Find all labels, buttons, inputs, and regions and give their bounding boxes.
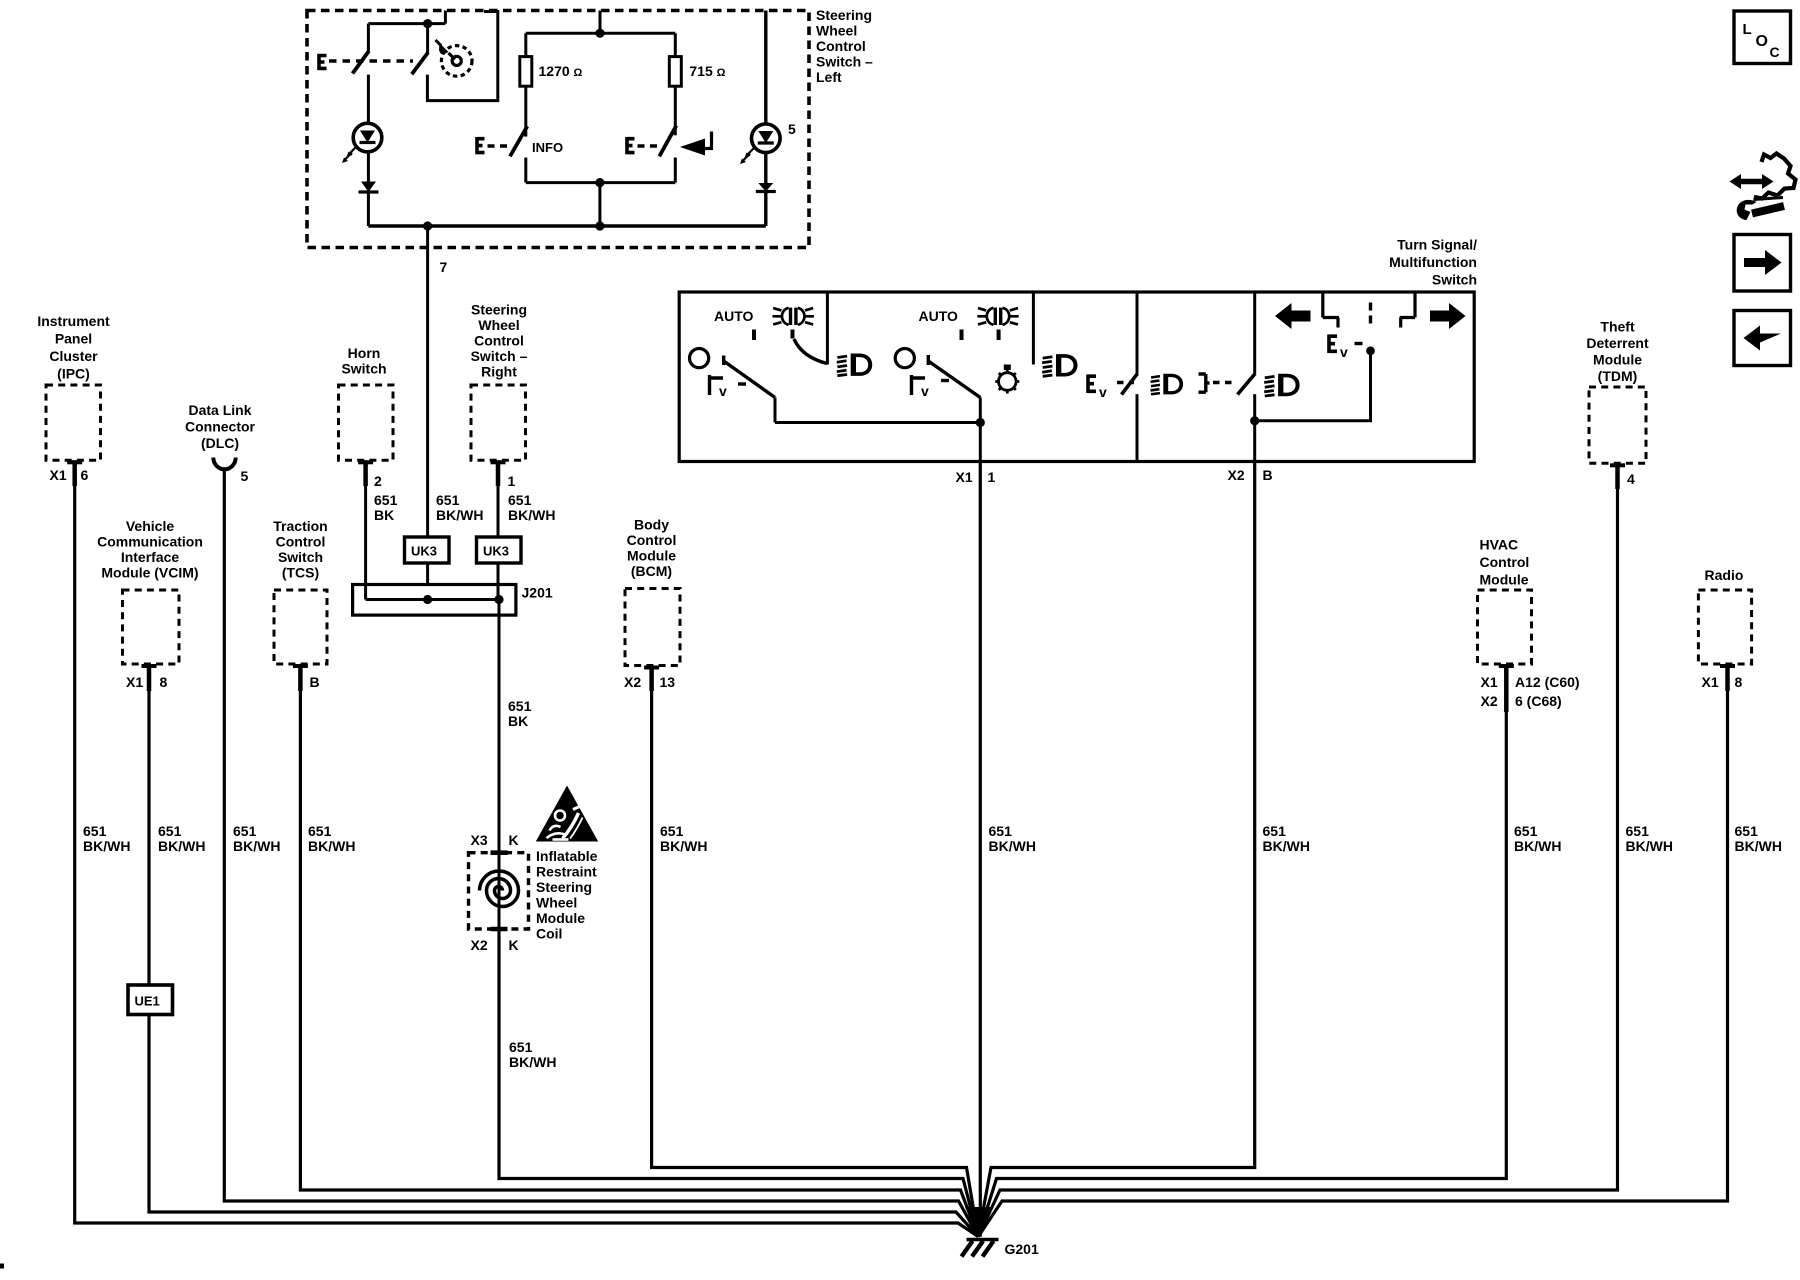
svg-text:Switch –: Switch – [471,348,528,364]
relay box UE1 [128,985,173,1015]
module BCM label [627,517,677,580]
wire: Radio to ground bus [978,689,1727,1237]
svg-text:Radio: Radio [1705,567,1744,583]
wire: BCM to ground bus [652,689,979,1237]
svg-text:651: 651 [1514,823,1538,839]
wire: HVAC to ground bus [978,712,1506,1237]
svg-text:6: 6 [81,467,89,483]
headlamps icon 1 [773,308,814,325]
link dashes section 3a [1117,381,1134,384]
switch S3 lower terminal [674,158,677,183]
pin stub SWCS-R [491,460,506,464]
svg-text:5: 5 [788,121,796,137]
wire: pin 7 drop below module [426,226,429,585]
svg-text:X2: X2 [1481,693,1498,709]
label: Inflatable Restraint Steering Wheel Module Coil [536,848,598,942]
svg-text:8: 8 [1735,674,1743,690]
pin label X1 X2 | A12 (C60) 6 (C68) [1481,674,1580,709]
low beam lamp icon 2 [1042,354,1077,376]
gauge G1 dashed dial [441,46,472,77]
gauge G1 hub [452,56,461,65]
svg-text:X2: X2 [471,937,488,953]
svg-text:Body: Body [634,517,669,533]
switch S7 upper contact [1253,292,1256,374]
svg-text:BK/WH: BK/WH [1735,838,1782,854]
label: Turn Signal / Multifunction Switch [1389,237,1477,288]
svg-text:(IPC): (IPC) [57,366,90,382]
turn signal right arrow [1430,303,1466,329]
switch S2 INFO blade [510,126,527,156]
svg-text:X2: X2 [624,674,641,690]
svg-text:Module: Module [627,548,676,564]
coil connector tick bottom [491,927,508,932]
svg-text:Coil: Coil [536,926,562,942]
svg-text:6 (C68): 6 (C68) [1515,693,1562,709]
junction J201 right [494,595,503,604]
pin stub BCM [644,666,659,670]
junction bottom bus center [595,221,604,230]
wire: DLC to ground bus [224,470,978,1237]
wire label 651 BK/WH (TCS) [308,823,355,854]
gauge G1 pointer arrow [436,40,442,46]
switch S6 upper contact [1136,292,1139,374]
dome lamp (sun) icon [995,365,1019,394]
label: Steering Wheel Control Switch - Left [816,7,873,85]
svg-text:651: 651 [1626,823,1650,839]
pin stub TDM [1610,463,1625,467]
module IPC label [37,313,110,382]
resistor R2 body [669,57,681,87]
svg-text:X3: X3 [471,832,488,848]
turn signal left arrow [1275,303,1311,329]
svg-text:A12 (C60): A12 (C60) [1515,674,1580,690]
module Radio dashed box [1698,590,1751,664]
svg-text:Control: Control [474,333,524,349]
wire label 651 BK/WH (below coil) [509,1039,556,1070]
svg-text:X1: X1 [126,674,143,690]
wire label 651 BK/WH (DLC) [233,823,280,854]
svg-text:651: 651 [660,823,684,839]
coil connector tick top [491,850,508,855]
wire: blade S5 to common junction [979,398,982,462]
wire: loop rail to bottom bus [598,183,601,226]
svg-text:1: 1 [508,473,516,489]
svg-text:651: 651 [436,492,460,508]
LED D1 (left) circle [353,123,382,152]
junction bottom bus at pin 7 [423,221,432,230]
svg-text:651: 651 [374,492,398,508]
svg-text:Instrument: Instrument [37,313,110,329]
svg-text:Steering: Steering [536,879,592,895]
ground symbol G201 [967,1238,999,1242]
module TDM label [1586,319,1649,385]
switch module Horn dashed box [339,385,394,460]
module IPC dashed box [46,385,101,460]
svg-text:Steering: Steering [816,7,872,23]
rotary knob circle 1 [690,349,709,368]
svg-text:BK/WH: BK/WH [989,838,1036,854]
wire: Horn switch pin 2 to J201 [364,460,367,599]
junction turn signal wiper [1366,346,1375,355]
wire: R1 to INFO switch [524,86,527,136]
wire: multifunction X1 to ground [979,462,982,1237]
svg-text:BK/WH: BK/WH [509,1054,556,1070]
module TCS dashed box [274,590,327,664]
diode D2 triangle [361,182,376,193]
pin label X2 | B [1228,467,1273,483]
legend LOC box [1734,11,1791,64]
wire label 651 BK/WH (BCM) [660,823,707,854]
wire label 651 BK (horn) [374,492,398,523]
wire: S7 lower leg to pin B [1253,394,1256,461]
wire: turn signal wiper to feed [1255,351,1371,421]
svg-text:Control: Control [276,534,326,550]
junction turn signal feed [1250,416,1259,425]
svg-text:v: v [719,383,727,399]
svg-text:651: 651 [158,823,182,839]
switch S2 lower terminal [524,158,527,183]
svg-text:BK/WH: BK/WH [660,838,707,854]
off-detent symbol 2 [912,375,926,395]
wire: switch loop bottom rail [526,181,676,184]
svg-text:Deterrent: Deterrent [1586,335,1649,351]
return arrow symbol [680,139,705,156]
svg-text:B: B [1263,467,1273,483]
svg-text:651: 651 [308,823,332,839]
svg-text:Right: Right [481,364,517,380]
svg-text:X1: X1 [956,469,973,485]
ground convergence blob [965,1207,993,1237]
svg-text:Traction: Traction [273,518,327,534]
legend right-arrow box [1734,235,1791,292]
wire: coil to ground bus [499,929,978,1237]
svg-text:BK/WH: BK/WH [233,838,280,854]
svg-text:v: v [1340,344,1348,360]
wire label 651 BK/WH (SWCS-R wire) [508,492,555,523]
LED D3 cathode bar [758,141,774,144]
LED D1 anode triangle [360,131,375,143]
svg-text:Module: Module [1480,572,1529,588]
wire label 651 BK (below J201) [508,698,532,729]
pin stub VCIM [142,664,157,668]
wire: IPC to ground bus [75,482,979,1237]
svg-text:G201: G201 [1005,1241,1039,1257]
module HVAC dashed box [1478,590,1532,664]
svg-text:Switch –: Switch – [816,54,873,70]
switch blade S5 [928,355,980,398]
svg-text:651: 651 [508,698,532,714]
svg-text:Switch: Switch [341,361,386,377]
actuator Ev symbol turn signal [1329,335,1337,354]
svg-text:Horn: Horn [348,345,381,361]
svg-text:BK/WH: BK/WH [1263,838,1310,854]
switch module SW-M: Turn Signal / Multifunction Switch enclosure [679,292,1474,462]
svg-text:AUTO: AUTO [919,308,959,324]
fog lamp icon 3 [1151,374,1184,395]
connector DLC half-circle symbol [213,458,235,470]
pin label X3 | K (coil top) [471,832,519,848]
diode D4 triangle [758,183,773,192]
svg-text:Interface: Interface [121,549,180,565]
wire: LED D1 to diode D2 [367,152,370,182]
svg-text:INFO: INFO [532,140,563,155]
svg-text:(BCM): (BCM) [631,563,672,579]
svg-text:L: L [1743,21,1752,38]
wire: rail to R1 [524,33,527,56]
high beam lamp icon 4 [1264,374,1299,396]
svg-text:651: 651 [509,1039,533,1055]
diode D4 bar [756,190,776,193]
svg-text:Control: Control [627,532,677,548]
switch S3 blade [659,126,676,157]
LED D3 (right) circle [752,124,781,153]
wire label 651 BK/WH (TDM) [1626,823,1673,854]
switch S1a lower terminal to LED [367,75,370,122]
pin stub TCS [293,664,308,668]
svg-text:B: B [310,674,320,690]
svg-text:BK/WH: BK/WH [308,838,355,854]
actuator bracket E2 (INFO) [477,137,485,154]
position tick lamp 1 [791,330,795,339]
pin label X1 | 8 [1702,674,1743,690]
junction J201 left [423,595,432,604]
svg-text:HVAC: HVAC [1480,537,1519,553]
svg-text:BK: BK [508,713,528,729]
pin label X1 | 6 [50,467,89,483]
svg-text:Module (VCIM): Module (VCIM) [101,565,198,581]
wire: diode D2 to bottom bus [367,192,370,226]
switch module SW-L: Steering Wheel Control Switch - Left dashed enclosure [307,11,809,248]
svg-text:Vehicle: Vehicle [126,518,174,534]
right turn contact step [1400,292,1415,328]
wire: resistor top rail [526,32,676,35]
wire: multifunction X2 to ground bus [978,462,1254,1237]
diode D2 bar [359,190,379,193]
svg-text:Cluster: Cluster [49,348,98,364]
svg-text:Multifunction: Multifunction [1389,254,1477,270]
switch module SWCS-R dashed box [471,385,526,460]
off-detent symbol 1 [710,375,724,395]
svg-text:Wheel: Wheel [536,895,577,911]
svg-text:651: 651 [508,492,532,508]
svg-text:UK3: UK3 [411,544,437,559]
LED D3 emission arrows [740,148,755,165]
svg-text:Communication: Communication [97,534,203,550]
svg-text:8: 8 [160,674,168,690]
switch S7 blade [1238,374,1256,395]
coil module dashed box [469,853,529,929]
legend tool icon [1730,154,1796,221]
svg-text:Turn Signal/: Turn Signal/ [1397,237,1477,253]
pin stub Horn [358,460,373,464]
svg-text:X1: X1 [50,467,67,483]
svg-text:1: 1 [988,469,996,485]
svg-text:Steering: Steering [471,302,527,318]
svg-text:Data Link: Data Link [188,402,251,418]
switch S1a (left gang) fixed terminal [367,24,370,52]
wire label 651 BK/WH (pin 7 wire) [436,492,483,523]
pin stub HVAC [1499,664,1514,668]
scan speck [0,1264,4,1269]
rotary arc section 1 [794,339,827,364]
svg-text:X1: X1 [1481,674,1498,690]
switch module SWCS-R label [471,302,528,380]
junction at switch rail [423,19,432,28]
svg-text:v: v [921,383,929,399]
wire: multifunction common bus [775,421,980,424]
junction loop rail [595,178,604,187]
wire: diode D4 to bottom bus [764,192,767,227]
svg-text:BK/WH: BK/WH [436,507,483,523]
svg-text:Theft: Theft [1600,319,1635,335]
module BCM dashed box [625,589,680,666]
svg-text:v: v [1099,384,1107,400]
module TDM dashed box [1589,387,1646,463]
svg-text:2: 2 [374,473,382,489]
svg-text:UE1: UE1 [135,994,160,1009]
fuse box UK3 (left) [405,537,450,563]
wire: resistor feed from top border [599,11,602,34]
pin label X1 | 1 [956,469,996,485]
splice box J201 [353,585,516,616]
rotary knob circle 2 [895,349,914,368]
link dashes INFO [488,144,510,147]
module HVAC label [1480,537,1530,588]
low beam lamp icon 1 [837,354,872,376]
mechanical link dashes S1 [329,59,413,62]
pin stub Radio [1720,664,1735,668]
pin label X2 | K (coil bottom) [471,937,519,953]
wire through coil [498,853,501,929]
svg-text:Left: Left [816,69,842,85]
svg-text:Wheel: Wheel [816,23,857,39]
svg-text:5: 5 [241,468,249,484]
LED D3 anode triangle [758,131,773,143]
svg-text:X2: X2 [1228,467,1245,483]
wire label 651 BK/WH (IPC) [83,823,130,854]
svg-text:X1: X1 [1702,674,1719,690]
wire: LED D3 to diode D4 [764,153,767,183]
module VCIM dashed box [123,590,180,664]
wire: R2 to set switch [674,86,677,135]
svg-text:4: 4 [1627,471,1635,487]
headlamps icon 2 [977,308,1018,325]
actuator bracket E1 [319,54,327,70]
svg-text:BK/WH: BK/WH [1626,838,1673,854]
link dashes set switch [638,144,660,147]
svg-text:651: 651 [1263,823,1287,839]
svg-text:BK/WH: BK/WH [83,838,130,854]
svg-text:Module: Module [1593,352,1642,368]
svg-text:UK3: UK3 [483,544,509,559]
svg-text:BK/WH: BK/WH [508,507,555,523]
svg-text:AUTO: AUTO [714,308,754,324]
svg-text:Control: Control [1480,554,1530,570]
wire: J201 to coil X3 pin K [498,600,501,853]
svg-text:K: K [509,937,519,953]
legend left-arrow box [1734,311,1791,366]
gauge G1 needle [449,53,456,59]
wire label 651 BK/WH (multifunction X1) [989,823,1036,854]
switch S6 blade [1122,374,1138,395]
pin stub IPC [67,460,82,464]
svg-text:J201: J201 [522,585,553,601]
svg-text:BK/WH: BK/WH [1514,838,1561,854]
wire label 651 BK/WH (multifunction X2) [1263,823,1310,854]
turn signal actuator dashes [1369,303,1372,328]
svg-text:Switch: Switch [1432,272,1477,288]
svg-text:Switch: Switch [278,549,323,565]
wire: J201 internal bus [366,598,499,601]
resistor R1 body [520,57,532,87]
junction resistor rail [595,29,604,38]
switch S1b blade [412,52,428,74]
svg-text:(TDM): (TDM) [1598,368,1638,384]
wire: TDM to ground bus [978,486,1617,1237]
fuse box UK3 (right) [477,537,522,563]
position tick AUTO 1 [752,330,756,341]
LED D1 cathode bar [360,141,376,144]
svg-text:651: 651 [1735,823,1759,839]
svg-text:(TCS): (TCS) [282,565,319,581]
svg-text:BK/WH: BK/WH [158,838,205,854]
position tick lamp 2 [997,330,1001,341]
module VCIM label [97,518,203,581]
wire: LED D3 feed from top border [764,11,767,124]
svg-text:13: 13 [660,674,676,690]
left turn contact step [1323,292,1339,328]
svg-text:Wheel: Wheel [478,317,519,333]
pin label X2 | 13 [624,674,675,690]
wire: SWCS-R pin 1 to J201 [497,482,500,600]
coil spiral winding [480,871,519,907]
wire label 651 BK/WH (Radio) [1735,823,1782,854]
svg-text:Inflatable: Inflatable [536,848,598,864]
svg-text:BK: BK [374,507,394,523]
gauge enclosure [427,12,497,101]
svg-text:K: K [509,832,519,848]
divider wall 1 [826,292,829,365]
svg-text:Module: Module [536,910,585,926]
switch blade S4 [724,356,775,398]
switch S1b (right gang) fixed terminal [426,24,429,53]
link dashes section 3b [1213,381,1235,384]
position tick AUTO 2 [960,330,964,341]
wire label 651 BK/WH (HVAC) [1514,823,1561,854]
wire: blade S4 to common bus [774,398,777,423]
actuator Ev symbol section 3 [1088,375,1096,394]
wire: S6 lower leg [1136,394,1139,461]
LED D1 emission arrows [342,147,357,164]
wire: feed from top border into ganged switch rail [368,11,445,24]
svg-text:Panel: Panel [55,331,92,347]
switch module Horn label [341,345,386,377]
detent bracket section 3b [1199,374,1210,392]
wire: rail to R2 [674,33,677,56]
actuator bracket E3 (set) [627,137,635,154]
wire label 651 BK/WH (VCIM) [158,823,205,854]
svg-text:651: 651 [83,823,107,839]
pin label X1 | 8 [126,674,168,690]
svg-text:O: O [1756,33,1768,50]
svg-text:7: 7 [440,259,448,275]
switch S1a blade [353,51,369,74]
svg-text:651: 651 [233,823,257,839]
wire: VCIM to ground bus [149,689,978,1237]
svg-text:Connector: Connector [185,419,256,435]
svg-text:C: C [1770,44,1780,60]
module TCS label [273,518,327,581]
